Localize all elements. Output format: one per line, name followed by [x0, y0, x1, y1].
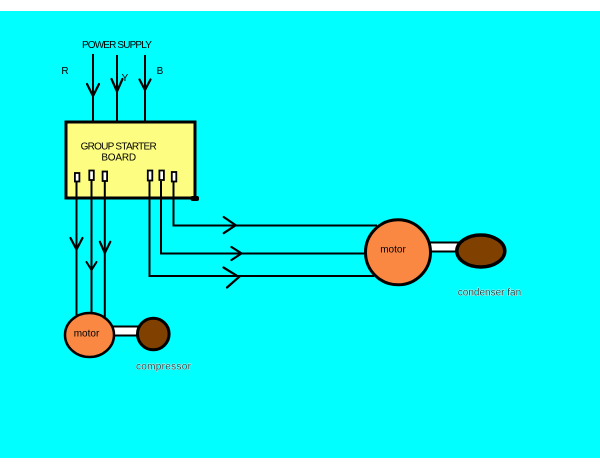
arrowhead on phase R wire — [87, 84, 99, 96]
wire board to fan motor line 2 (middle route) — [161, 181, 366, 254]
wire board to compressor motor line 2 — [91, 180, 93, 314]
wire supply phase R vertical — [92, 54, 94, 121]
arrowhead on compressor wire 3 — [100, 242, 110, 253]
svg-text:condenser fan: condenser fan — [458, 288, 521, 299]
compressor circle — [138, 318, 170, 350]
wire supply phase Y vertical — [116, 55, 118, 121]
terminal 4 — [148, 171, 153, 181]
svg-text:B: B — [157, 66, 164, 77]
condenser fan ellipse — [457, 235, 505, 267]
arrowhead on fan wire middle — [232, 247, 242, 260]
arrowhead on fan wire top — [224, 217, 236, 233]
arrowhead on fan wire bottom — [224, 268, 240, 288]
board corner overshoot bottom-right — [191, 196, 200, 201]
group starter board box — [66, 122, 195, 198]
arrowhead on compressor wire 1 — [71, 238, 83, 250]
svg-text:BOARD: BOARD — [101, 152, 136, 163]
arrowhead on phase B wire — [140, 80, 151, 91]
svg-text:R: R — [61, 66, 68, 77]
fan motor circle — [366, 220, 431, 285]
svg-text:compressor: compressor — [136, 362, 192, 373]
shaft compressor motor — [110, 327, 141, 336]
wire board to fan motor line 3 (top route) — [174, 181, 378, 226]
terminal 6 — [172, 172, 177, 182]
compressor motor circle — [65, 313, 114, 357]
wire supply phase B vertical — [144, 55, 146, 121]
svg-text:POWER SUPPLY: POWER SUPPLY — [82, 40, 152, 51]
arrowhead on compressor wire 2 — [87, 262, 97, 270]
arrowhead on phase Y wire — [112, 79, 123, 92]
svg-text:GROUP STARTER: GROUP STARTER — [81, 141, 157, 152]
svg-text:Y: Y — [122, 73, 129, 84]
shaft fan motor — [428, 243, 460, 252]
terminal 5 — [159, 171, 164, 181]
svg-text:motor: motor — [380, 245, 406, 256]
terminal 2 — [89, 171, 94, 181]
svg-text:motor: motor — [74, 329, 100, 340]
terminal 1 — [75, 173, 80, 182]
wire board to compressor motor line 3 — [104, 181, 106, 318]
wire board to compressor motor line 1 — [76, 181, 78, 317]
terminal 3 — [103, 172, 108, 182]
wire board to fan motor line 1 (bottom route) — [150, 181, 375, 276]
